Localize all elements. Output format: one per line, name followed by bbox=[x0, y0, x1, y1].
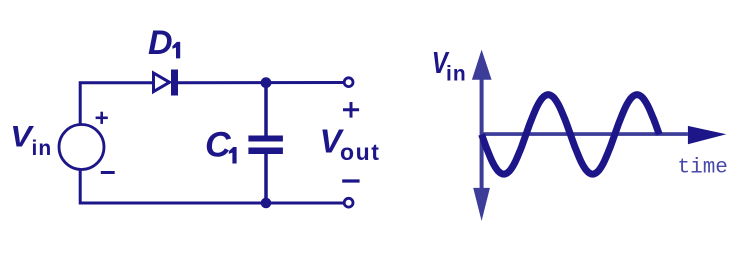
svg-text:time: time bbox=[678, 156, 728, 179]
svg-text:D: D bbox=[148, 24, 173, 62]
svg-text:C: C bbox=[205, 125, 232, 165]
svg-text:out: out bbox=[340, 139, 381, 165]
svg-text:in: in bbox=[446, 63, 467, 86]
svg-text:in: in bbox=[32, 137, 53, 160]
